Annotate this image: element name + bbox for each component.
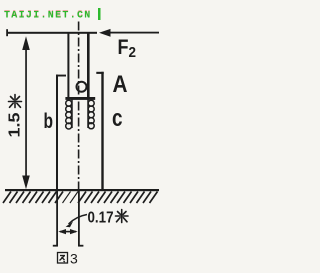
spring left [66,100,72,130]
vertical dimension line (1.5m) [22,36,30,189]
buried left bottom tick [53,245,58,247]
buried right bottom tick [78,245,83,247]
svg-text:2: 2 [129,44,137,61]
pole right wall [87,32,90,99]
sleeve wall b (left) [56,75,58,190]
sleeve wall c top lip [96,72,103,74]
label 0.17米 [88,210,129,227]
sleeve wall c (right) [101,72,103,190]
buried tube right line [78,191,80,247]
glyph 米 (0.17米) [116,210,129,223]
top extension line (pole top level) [7,32,97,34]
glyph 米 [9,95,22,108]
svg-text:1.5: 1.5 [7,112,24,137]
svg-text:TAIJI.NET.CN: TAIJI.NET.CN [4,11,92,22]
centre axis line (dash-dot) above and through pole [78,22,80,191]
watermark cursor bar [98,8,101,20]
label 1.5米 (rotated) [7,95,24,138]
caption 图3 [58,251,79,267]
svg-text:A: A [113,71,128,98]
ground hatching [3,192,158,204]
pulley circle on pole [77,82,87,92]
svg-text:0.17: 0.17 [88,210,114,227]
ground line [5,189,159,191]
leader arrowhead [66,222,73,228]
buried tube left line [56,191,58,247]
spring right [88,100,94,129]
piston bottom plate [65,97,95,100]
pole left wall [67,32,69,99]
svg-text:F: F [118,36,129,59]
extension line end tick [6,29,8,36]
glyph 图 [58,253,68,264]
svg-text:3: 3 [70,251,78,267]
svg-text:b: b [44,110,54,133]
dimension leader line [69,215,88,225]
force arrow F2 [99,29,159,37]
sleeve wall b top lip [56,75,66,77]
dimension double arrow 0.17m [58,229,77,234]
svg-text:c: c [112,105,123,132]
